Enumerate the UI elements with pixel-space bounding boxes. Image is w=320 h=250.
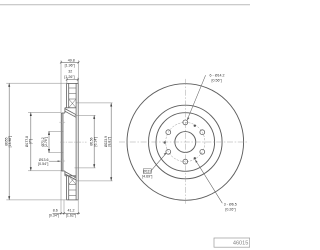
outer circle	[127, 84, 244, 201]
ext hat top	[28, 111, 61, 113]
svg-text:3 - Ø6.5: 3 - Ø6.5	[224, 202, 237, 206]
leader PCD	[142, 153, 167, 179]
svg-text:[6.14"]: [6.14"]	[93, 137, 97, 147]
texts: bottom dims	[49, 208, 76, 217]
friction band inner circle	[149, 105, 223, 179]
dim 223.9	[110, 103, 112, 181]
leader 3 small holes	[195, 159, 237, 211]
svg-text:Ø156: Ø156	[90, 137, 94, 145]
dimension arrowheads	[8, 83, 112, 200]
svg-text:[0.56"]: [0.56"]	[211, 79, 221, 83]
svg-text:[1.62"]: [1.62"]	[66, 214, 76, 218]
hatch end edge top	[65, 107, 76, 109]
ext 156 top	[75, 114, 96, 116]
ext 32 left	[66, 78, 68, 84]
label bolt hole dia	[38, 158, 61, 166]
bolt hole center dashes	[59, 122, 66, 161]
band left face bottom chunk	[66, 176, 68, 200]
ext 223.9 top	[77, 102, 113, 104]
dim bottom 8.6 / 41.2	[53, 212, 81, 214]
texts: top dims	[64, 59, 75, 80]
top rule	[0, 4, 250, 5]
bolt circle dashed	[166, 122, 205, 161]
center bore	[175, 132, 196, 153]
texts: left rotated labels	[4, 136, 48, 148]
dimension lines	[9, 62, 111, 213]
bolt hole hidden lines upper	[62, 120, 64, 164]
ext hat bottom	[28, 170, 61, 172]
ext od bottom	[6, 199, 67, 201]
svg-text:41.2: 41.2	[68, 208, 75, 212]
svg-text:[7"]: [7"]	[29, 139, 33, 144]
inboard face line full	[77, 83, 79, 199]
svg-text:32: 32	[68, 70, 72, 74]
svg-text:Ø13.6: Ø13.6	[39, 158, 49, 162]
hat flange face	[60, 113, 62, 171]
dim bore	[48, 131, 50, 152]
bolt hole hidden lines lower	[61, 159, 63, 164]
ext 49.8 right	[78, 60, 80, 83]
svg-text:[0.54"]: [0.54"]	[38, 162, 48, 166]
band bottom edge	[67, 199, 79, 201]
inboard plate line full	[75, 83, 77, 199]
ext 32 right	[77, 78, 79, 84]
hat cone section bottom	[65, 172, 76, 180]
leader 6 holes	[187, 74, 225, 121]
dim 32	[67, 79, 78, 81]
band left face top chunk	[66, 83, 68, 107]
svg-text:[0.34"]: [0.34"]	[49, 214, 59, 218]
svg-text:6 - Ø14.2: 6 - Ø14.2	[210, 74, 225, 78]
hatch start edge bottom	[65, 175, 76, 177]
front view centerlines	[119, 79, 248, 205]
svg-text:46015: 46015	[233, 241, 249, 247]
flange bottom edge	[61, 170, 65, 172]
dimension ticks	[60, 61, 80, 214]
vane X cross bottom chunk	[69, 176, 76, 185]
section axis centerline	[60, 141, 87, 143]
ext 223.9 bottom	[77, 180, 113, 182]
ext bore bottom	[48, 152, 63, 154]
leader bolt hole	[49, 160, 60, 162]
svg-text:49.8: 49.8	[68, 59, 75, 63]
ext od top	[6, 82, 67, 84]
outboard plate inner line bottom	[68, 176, 70, 200]
3 small holes	[164, 125, 197, 160]
dim 156	[93, 115, 95, 168]
ext bore top	[48, 130, 63, 132]
step vertical top	[64, 108, 66, 113]
hat circle	[156, 113, 215, 172]
ext 156 bottom	[75, 167, 96, 169]
extension lines	[6, 60, 112, 214]
vane X cross top chunk	[69, 99, 76, 108]
dim 49.8	[61, 61, 79, 63]
hat cone section top	[65, 109, 76, 118]
section view: disc band outer plates	[65, 83, 79, 199]
svg-text:[1.26"]: [1.26"]	[64, 75, 74, 79]
svg-text:[1.96"]: [1.96"]	[65, 64, 75, 68]
flange top edge	[61, 112, 65, 114]
svg-text:Ø119: Ø119	[143, 170, 152, 174]
svg-text:[8.81"]: [8.81"]	[108, 137, 112, 147]
hat flange inner face	[62, 113, 64, 171]
svg-text:[13.98"]: [13.98"]	[8, 136, 12, 148]
ext 49.8 left	[60, 60, 62, 112]
svg-text:8.6: 8.6	[53, 208, 58, 212]
ext bottom dims	[60, 171, 62, 215]
dim hat 177.8	[30, 112, 32, 170]
texts: right rotated labels	[90, 136, 112, 147]
outboard plate inner line top	[68, 83, 70, 107]
band top edge	[67, 82, 79, 84]
vane rungs top chunk	[69, 88, 76, 99]
vane rungs bottom chunk	[69, 185, 76, 196]
part number box	[214, 238, 250, 247]
bolt holes	[166, 120, 205, 164]
step vertical bottom	[64, 171, 66, 176]
svg-text:[4.69"]: [4.69"]	[142, 174, 152, 178]
svg-text:[0.26"]: [0.26"]	[225, 207, 235, 211]
dim od 355	[8, 83, 10, 200]
svg-text:[2.76"]: [2.76"]	[44, 137, 48, 147]
front view	[127, 84, 244, 201]
